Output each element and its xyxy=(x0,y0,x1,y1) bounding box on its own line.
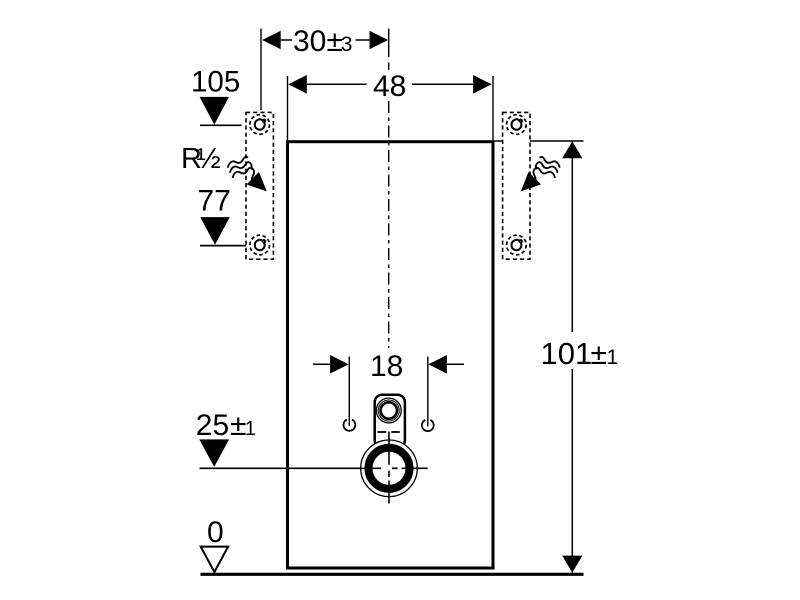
plate slot dashes xyxy=(378,431,387,433)
screw bottom-left xyxy=(250,235,270,255)
label 77 with datum triangle xyxy=(198,184,250,245)
screw top-left xyxy=(250,115,270,135)
svg-text:0: 0 xyxy=(207,516,224,549)
supply connection circles xyxy=(376,398,401,423)
svg-text:½: ½ xyxy=(197,143,221,175)
svg-text:105: 105 xyxy=(191,65,240,98)
left wavy supply arrow xyxy=(226,156,266,192)
node A: centerline tick top xyxy=(388,29,390,58)
svg-text:1: 1 xyxy=(607,346,619,369)
screw bottom-right xyxy=(507,235,527,255)
right extension line at panel top for 101±1 xyxy=(493,140,584,142)
dimension 30±3 xyxy=(262,25,388,58)
svg-text:1: 1 xyxy=(245,418,256,440)
small fixing hole left xyxy=(344,420,356,431)
svg-text:±: ± xyxy=(591,338,607,371)
svg-text:30: 30 xyxy=(293,25,326,58)
small fixing hole right xyxy=(422,420,434,431)
svg-text:101: 101 xyxy=(541,336,593,371)
floor line xyxy=(201,573,584,576)
svg-text:3: 3 xyxy=(341,33,353,56)
crosshair vertical xyxy=(388,432,390,504)
drain connection thick ring xyxy=(369,448,410,489)
svg-text:48: 48 xyxy=(373,70,406,103)
dimension 48 xyxy=(288,70,494,140)
svg-text:77: 77 xyxy=(198,184,231,217)
right fixing rail (dashed box) xyxy=(503,112,530,259)
label 25±1 with datum triangle xyxy=(196,409,256,467)
label 105 with datum triangle xyxy=(191,65,242,125)
svg-text:18: 18 xyxy=(370,350,403,383)
dimension 18 xyxy=(313,350,464,426)
water supply plate xyxy=(375,395,405,448)
monolith panel outline xyxy=(288,142,494,568)
wire: top extension line for 30±3 at screw axis xyxy=(260,29,262,111)
svg-text:25: 25 xyxy=(196,409,229,442)
crosshair horizontal / 25±1 datum line xyxy=(200,467,428,469)
right wavy supply arrow (mirrored) xyxy=(521,156,561,192)
left fixing rail (dashed box) xyxy=(246,112,273,259)
drain connection outer circle xyxy=(361,440,418,497)
label 0 with open datum triangle xyxy=(201,516,228,572)
screw top-right xyxy=(507,115,527,135)
wire: vertical dash-dot centerline xyxy=(388,63,390,71)
dimension 101±1 xyxy=(541,141,619,572)
